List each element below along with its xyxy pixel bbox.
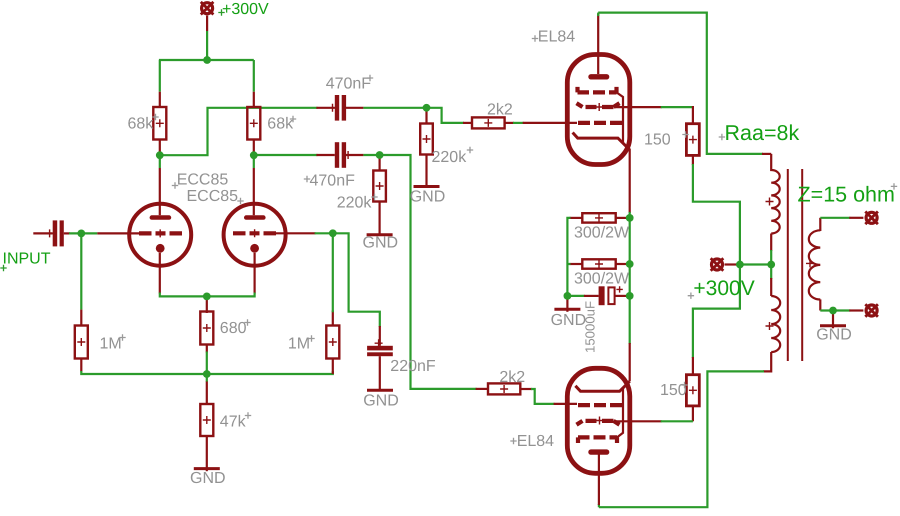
wire EL84 bottom anode to primary bottom — [599, 352, 771, 507]
transformer primary bottom winding — [766, 296, 781, 352]
resistor 220k right — [420, 124, 433, 155]
svg-text:Z=15 ohm: Z=15 ohm — [798, 183, 895, 207]
resistor 68k right — [247, 107, 260, 140]
supply pad +300V mid — [711, 258, 724, 271]
pentode EL84 bottom — [567, 368, 630, 473]
part name ECC85 first — [172, 172, 229, 189]
svg-text:+300V: +300V — [693, 277, 754, 300]
svg-text:300/2W: 300/2W — [574, 225, 630, 242]
wire ECC85 cathodes join — [160, 253, 255, 471]
wire cathode bias column — [629, 149, 631, 381]
junction ECC85 cathode node — [203, 293, 211, 301]
svg-text:68k: 68k — [128, 115, 155, 132]
triode ECC85 right — [224, 204, 286, 266]
resistor 2k2 bottom — [488, 383, 520, 394]
ground symbol near 15000uF — [554, 308, 580, 311]
net label +300V top — [218, 1, 269, 18]
resistor 1M right — [326, 326, 339, 359]
triode ECC85 left — [129, 204, 191, 266]
value 47k — [220, 412, 251, 430]
value 220k right — [432, 147, 474, 166]
junction bypass cap right node — [626, 292, 634, 300]
junction +300V feed node — [736, 261, 744, 269]
svg-text:INPUT: INPUT — [3, 251, 51, 268]
wire secondary bottom to pad and ground — [820, 299, 863, 328]
svg-text:Raa=8k: Raa=8k — [725, 121, 800, 145]
svg-text:GND: GND — [551, 312, 587, 329]
junction 470nF top output node — [423, 104, 431, 112]
value 470nF top — [326, 75, 374, 93]
wire EL84 top anode to primary top — [598, 13, 771, 154]
svg-text:ECC85: ECC85 — [187, 188, 239, 205]
svg-text:1M: 1M — [100, 336, 122, 353]
net label Raa=8k — [719, 121, 800, 145]
resistor 150 bottom — [686, 375, 699, 406]
svg-text:GND: GND — [410, 189, 446, 206]
resistor 150 top — [686, 124, 699, 156]
ground symbol under 220k right — [414, 185, 440, 188]
junction B+ rail top — [203, 56, 211, 64]
svg-text:GND: GND — [190, 470, 226, 487]
svg-text:2k2: 2k2 — [487, 101, 513, 118]
junction 470nF bottom output node — [376, 151, 384, 159]
output pad bottom — [865, 304, 878, 317]
output pad top — [865, 212, 878, 225]
svg-text:1M: 1M — [288, 336, 310, 353]
ground symbol under 220nF — [367, 389, 393, 392]
pentode EL84 top — [567, 55, 630, 165]
svg-text:EL84: EL84 — [538, 28, 575, 45]
resistor 300/2W top — [582, 213, 615, 222]
svg-text:300/2W: 300/2W — [574, 271, 630, 288]
svg-text:220k: 220k — [337, 195, 373, 212]
net label Z=15 ohm — [798, 183, 898, 207]
wire primary centre tap feeds — [770, 234, 772, 297]
svg-text:220k: 220k — [432, 149, 468, 166]
wire secondary top to pad — [820, 218, 863, 231]
node left anode (ECC85 A to 470nF top) — [160, 108, 335, 215]
svg-text:GND: GND — [363, 392, 399, 409]
resistor 300/2W bottom — [582, 259, 615, 268]
svg-text:47k: 47k — [220, 413, 247, 430]
junction secondary ground node — [829, 307, 837, 315]
junction transformer centre tap — [767, 261, 775, 269]
capacitor 220nF — [367, 339, 393, 356]
svg-text:+300V: +300V — [222, 1, 269, 18]
value 1M right — [288, 335, 315, 352]
ground symbol under secondary — [820, 324, 846, 327]
wire 470nF bottom output to 2k2 lower and 220k left — [346, 155, 577, 404]
wire +300V top rail — [159, 16, 254, 108]
value 150 top — [644, 131, 689, 148]
resistor 1M left — [75, 326, 88, 359]
capacitor 470nF bottom — [335, 142, 352, 168]
svg-text:470nF: 470nF — [326, 76, 372, 93]
resistor 220k left — [373, 171, 386, 202]
svg-text:GND: GND — [816, 327, 852, 344]
junction mid cathode bias node — [626, 260, 634, 268]
resistor 68k left — [153, 107, 166, 140]
svg-text:150: 150 — [644, 132, 671, 149]
node right anode (ECC85 A to 470nF bottom) — [254, 140, 335, 216]
junction right grid node — [329, 229, 337, 237]
net label INPUT — [0, 251, 50, 272]
svg-text:GND: GND — [363, 235, 399, 252]
svg-text:470nF: 470nF — [310, 173, 356, 190]
svg-text:2k2: 2k2 — [499, 369, 525, 386]
svg-text:220nF: 220nF — [390, 358, 436, 375]
capacitor 15000uF polarized — [599, 286, 623, 305]
ground symbol under 220k left — [367, 233, 393, 236]
svg-text:ECC85: ECC85 — [177, 172, 229, 189]
supply pad +300V top — [201, 2, 214, 15]
transformer secondary winding — [806, 230, 820, 299]
junction left anode node — [156, 151, 164, 159]
value 150 bottom — [660, 382, 688, 399]
transformer core — [788, 169, 802, 361]
capacitor input — [46, 220, 64, 246]
capacitor 470nF top — [329, 95, 347, 121]
value 220k left — [337, 194, 378, 212]
junction input node — [77, 230, 85, 238]
part name EL84 top — [532, 28, 575, 45]
resistor 680 — [200, 312, 213, 345]
value 1M left — [100, 334, 126, 352]
net label +300V mid — [688, 277, 755, 300]
svg-text:680: 680 — [220, 320, 247, 337]
junction tail rail node — [203, 370, 211, 378]
junction top cathode bias node — [626, 214, 634, 222]
wire 470nF top output to 2k2 upper, 220k right — [346, 108, 577, 188]
part name ECC85 second — [187, 188, 244, 205]
value 68k right — [267, 115, 296, 132]
resistor 47k — [200, 404, 213, 436]
svg-text:68k: 68k — [267, 115, 294, 132]
wire INPUT node — [33, 233, 333, 374]
value 680 — [220, 319, 251, 337]
part name EL84 bottom — [510, 433, 554, 450]
ground symbol under 47k — [194, 467, 220, 470]
wire +300V mid stub — [725, 263, 772, 265]
junction bypass cap left node — [564, 292, 572, 300]
junction right anode node — [250, 151, 258, 159]
value 470nF bottom — [304, 173, 355, 190]
value 68k left — [128, 114, 159, 133]
svg-text:EL84: EL84 — [517, 433, 554, 450]
wire right grid node to 220nF — [276, 233, 380, 391]
wire EL84 top g2 to 150 and +300V riser — [615, 106, 740, 421]
wire cathode resistor left rail — [567, 218, 627, 312]
transformer primary top winding — [766, 154, 780, 234]
resistor 2k2 top — [472, 117, 505, 128]
